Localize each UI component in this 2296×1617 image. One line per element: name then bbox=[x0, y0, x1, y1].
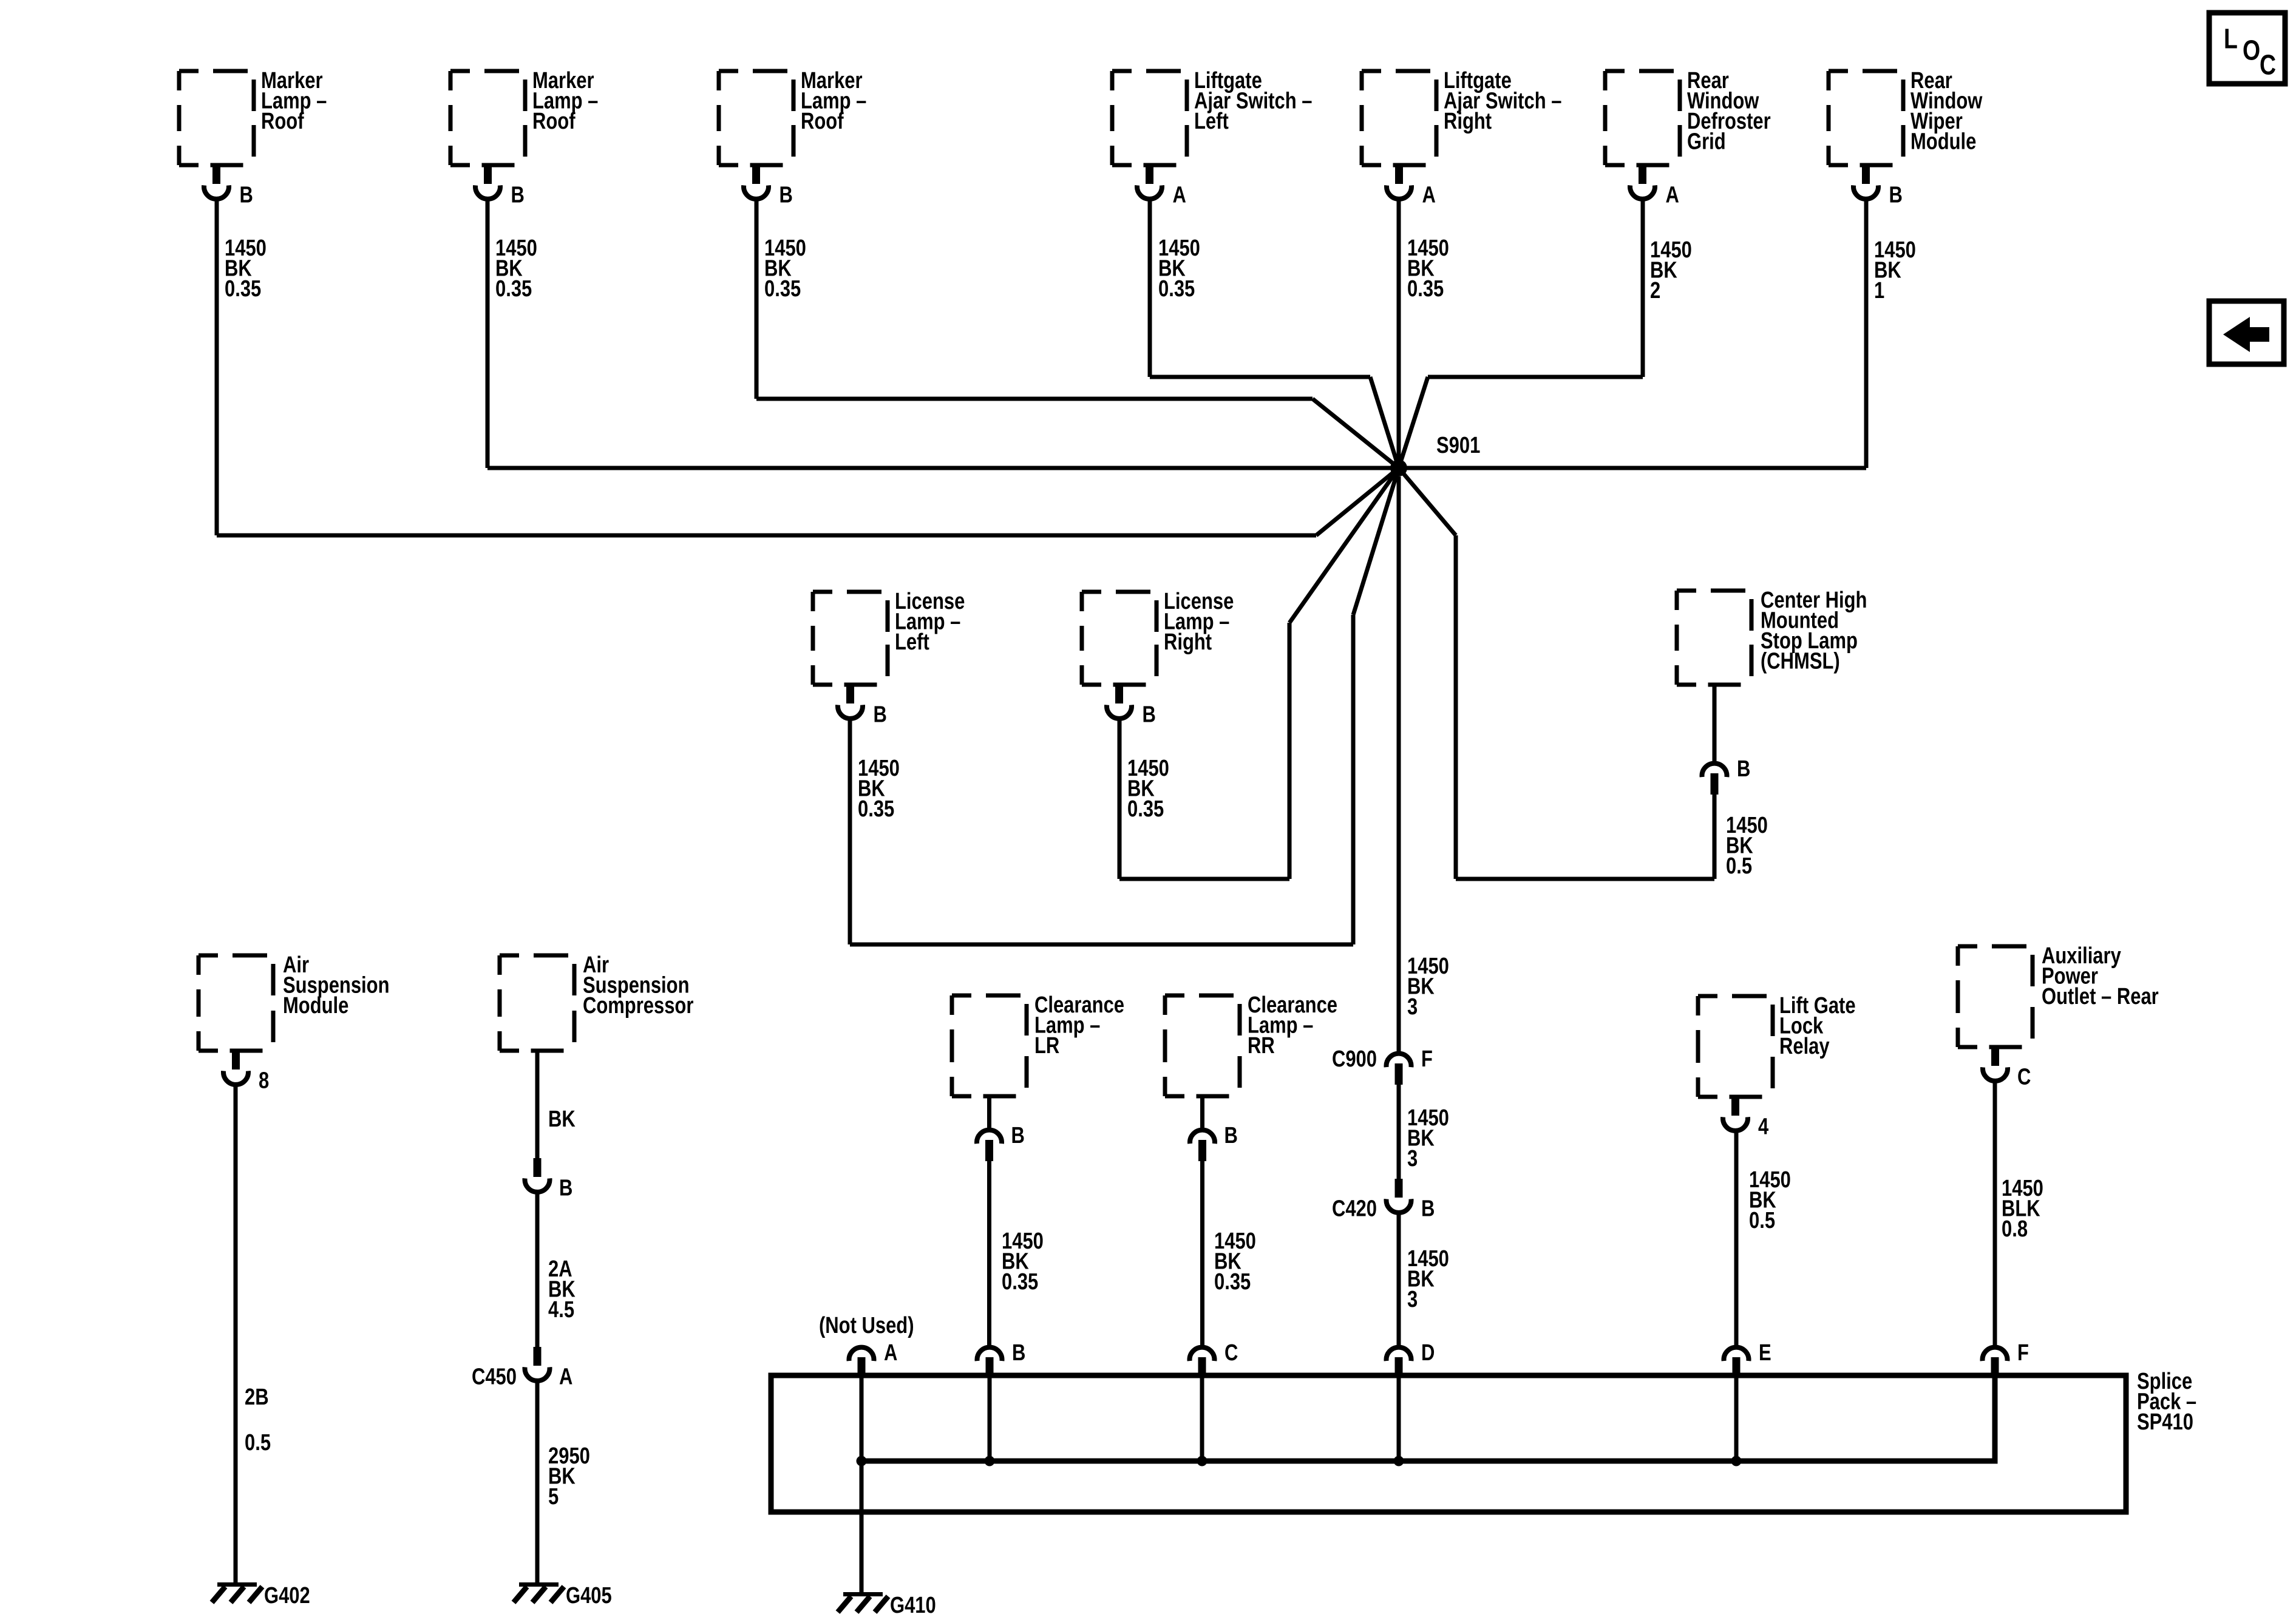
svg-text:B: B bbox=[240, 183, 253, 208]
svg-text:D: D bbox=[1421, 1340, 1435, 1366]
svg-text:LR: LR bbox=[1034, 1033, 1059, 1059]
svg-text:A: A bbox=[1173, 183, 1186, 208]
svg-text:B: B bbox=[1224, 1123, 1238, 1148]
svg-text:3: 3 bbox=[1407, 1146, 1418, 1171]
svg-text:S901: S901 bbox=[1436, 433, 1480, 458]
svg-text:0.35: 0.35 bbox=[1158, 276, 1195, 302]
svg-text:0.35: 0.35 bbox=[495, 276, 532, 302]
svg-text:8: 8 bbox=[259, 1068, 269, 1094]
svg-text:0.35: 0.35 bbox=[764, 276, 801, 302]
svg-text:0.5: 0.5 bbox=[245, 1430, 271, 1456]
svg-text:0.8: 0.8 bbox=[2002, 1216, 2028, 1242]
svg-text:O: O bbox=[2243, 35, 2260, 66]
svg-text:4: 4 bbox=[1758, 1114, 1769, 1140]
svg-text:G402: G402 bbox=[264, 1583, 310, 1609]
svg-text:B: B bbox=[1421, 1196, 1435, 1222]
svg-text:RR: RR bbox=[1248, 1033, 1275, 1059]
svg-text:Module: Module bbox=[1911, 129, 1976, 155]
svg-text:Right: Right bbox=[1444, 109, 1492, 134]
svg-text:C420: C420 bbox=[1332, 1196, 1377, 1222]
svg-text:SP410: SP410 bbox=[2137, 1409, 2193, 1435]
svg-text:4.5: 4.5 bbox=[548, 1297, 574, 1323]
svg-text:Outlet – Rear: Outlet – Rear bbox=[2042, 984, 2159, 1009]
svg-text:C: C bbox=[2017, 1065, 2031, 1090]
svg-text:5: 5 bbox=[548, 1484, 559, 1510]
svg-text:0.35: 0.35 bbox=[225, 276, 261, 302]
svg-text:B: B bbox=[1737, 756, 1750, 782]
svg-text:BK: BK bbox=[548, 1107, 576, 1132]
svg-text:2B: 2B bbox=[245, 1385, 269, 1410]
svg-text:3: 3 bbox=[1407, 1287, 1418, 1312]
svg-text:2: 2 bbox=[1650, 278, 1660, 303]
svg-text:0.35: 0.35 bbox=[1127, 796, 1164, 822]
svg-text:Right: Right bbox=[1164, 629, 1212, 655]
svg-text:B: B bbox=[1011, 1123, 1025, 1148]
svg-text:0.35: 0.35 bbox=[1407, 276, 1444, 302]
svg-text:Relay: Relay bbox=[1779, 1034, 1830, 1059]
svg-text:(Not Used): (Not Used) bbox=[819, 1313, 914, 1338]
svg-text:E: E bbox=[1759, 1340, 1771, 1366]
svg-text:0.35: 0.35 bbox=[1002, 1269, 1038, 1295]
svg-text:A: A bbox=[559, 1364, 572, 1390]
svg-text:G410: G410 bbox=[890, 1593, 936, 1617]
svg-text:Left: Left bbox=[895, 629, 929, 655]
svg-text:B: B bbox=[1889, 183, 1903, 208]
svg-text:A: A bbox=[1666, 183, 1679, 208]
svg-text:3: 3 bbox=[1407, 994, 1418, 1020]
svg-text:C: C bbox=[1224, 1340, 1238, 1366]
svg-text:B: B bbox=[559, 1176, 572, 1201]
svg-text:G405: G405 bbox=[566, 1583, 612, 1609]
svg-text:Compressor: Compressor bbox=[583, 993, 693, 1019]
svg-text:A: A bbox=[1422, 183, 1436, 208]
svg-text:C450: C450 bbox=[472, 1364, 517, 1390]
svg-text:1: 1 bbox=[1874, 278, 1884, 303]
svg-text:F: F bbox=[2017, 1340, 2029, 1366]
svg-text:0.35: 0.35 bbox=[1214, 1269, 1251, 1295]
svg-text:B: B bbox=[1012, 1340, 1025, 1366]
svg-text:B: B bbox=[779, 183, 793, 208]
svg-text:Module: Module bbox=[283, 993, 348, 1019]
svg-text:B: B bbox=[511, 183, 525, 208]
svg-text:F: F bbox=[1421, 1046, 1433, 1072]
svg-text:B: B bbox=[1143, 702, 1156, 728]
svg-text:Left: Left bbox=[1194, 109, 1229, 134]
svg-text:Roof: Roof bbox=[261, 109, 304, 134]
svg-text:0.5: 0.5 bbox=[1749, 1208, 1775, 1233]
svg-text:A: A bbox=[884, 1340, 897, 1366]
svg-text:C: C bbox=[2260, 49, 2276, 81]
svg-text:0.5: 0.5 bbox=[1726, 853, 1752, 879]
svg-text:Grid: Grid bbox=[1687, 129, 1726, 155]
svg-text:0.35: 0.35 bbox=[858, 796, 894, 822]
svg-text:L: L bbox=[2224, 23, 2238, 55]
svg-text:Roof: Roof bbox=[532, 109, 576, 134]
svg-text:Roof: Roof bbox=[801, 109, 844, 134]
svg-text:B: B bbox=[874, 702, 887, 728]
svg-text:(CHMSL): (CHMSL) bbox=[1761, 649, 1840, 674]
svg-text:C900: C900 bbox=[1332, 1046, 1377, 1072]
